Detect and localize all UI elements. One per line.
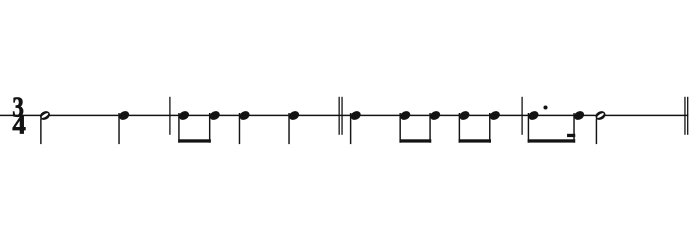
svg-text:4: 4 [12,110,25,140]
